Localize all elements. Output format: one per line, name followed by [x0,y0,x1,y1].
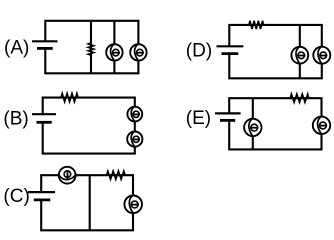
label (D) [186,41,212,62]
label (E) [186,108,211,129]
bulb C1 (on top wire) [59,167,76,184]
bulb C2 [124,196,142,214]
battery E long plate [215,112,241,114]
battery C short plate [34,198,51,201]
resistor (D) zigzag [249,21,264,29]
bulb D2 [313,47,330,64]
bulb A2 [130,44,146,60]
bulb E1 [244,119,261,136]
battery A short plate [37,47,53,50]
bulb D1 [291,47,308,64]
wire A outer loop [45,21,138,74]
bulb B1 [127,107,142,122]
svg-text:(C): (C) [3,186,29,207]
resistor (B) zigzag [61,93,78,101]
resistor R (A) zigzag [88,43,94,55]
battery D long plate [217,45,244,47]
battery C long plate [28,191,55,193]
battery B short plate [37,121,52,124]
label (C) [3,186,29,207]
wire E outer loop [229,98,321,149]
label (A) [4,38,29,59]
label (B) [3,108,28,129]
battery A long plate [32,40,58,42]
wire B outer loop [43,98,135,154]
wire C middle branch [89,175,91,230]
wire A resistor branch [90,21,92,74]
battery D short plate [222,52,239,55]
svg-text:(D): (D) [186,41,212,62]
wire C outer loop [41,175,133,230]
svg-text:(E): (E) [186,108,211,129]
bulb E2 [313,117,330,134]
wire D outer loop [229,25,321,78]
bulb B2 [127,132,142,147]
wire E bulb branch [252,98,254,149]
battery E short plate [220,119,235,122]
bulb A1 [106,44,122,60]
resistor (C) zigzag [107,171,126,179]
wire A bulb branch 1 [113,21,115,74]
svg-text:(B): (B) [3,108,28,129]
wire D bulb branch [299,25,301,78]
resistor (E) zigzag [290,94,309,102]
svg-text:(A): (A) [4,38,29,59]
battery B long plate [32,113,56,115]
